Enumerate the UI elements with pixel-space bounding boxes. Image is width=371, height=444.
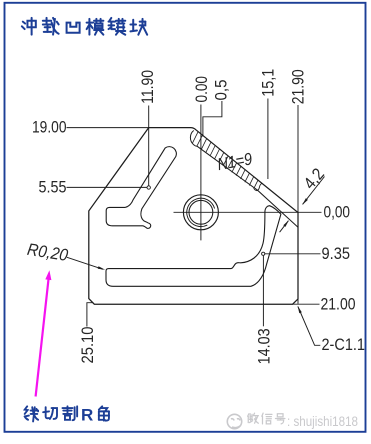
dim ext 25.10 — [87, 303, 93, 327]
dim line 9.35 with point marker — [265, 253, 321, 255]
svg-text:14.03: 14.03 — [255, 328, 274, 364]
svg-text:21.00: 21.00 — [321, 295, 356, 314]
svg-text:5.55: 5.55 — [39, 177, 67, 196]
dim text 0.00 top — [192, 76, 211, 103]
magenta callout arrow — [36, 279, 49, 396]
dim ext 21.90 / right edge extension — [297, 105, 299, 212]
dim text 0,5 — [212, 80, 231, 101]
leader R0,20 — [67, 257, 103, 269]
svg-text:: shujishi1818: : shujishi1818 — [287, 414, 358, 429]
dim text 4,2 — [300, 165, 328, 193]
dim leader 0,5 — [203, 101, 222, 137]
dim ext 15,1 — [267, 99, 269, 180]
arrowhead 4,2 upper — [302, 198, 308, 205]
dim text 15,1 — [258, 69, 277, 97]
svg-text:2-C1.1: 2-C1.1 — [322, 335, 366, 354]
dim line 19.00 — [67, 127, 149, 129]
svg-text:0,00: 0,00 — [324, 203, 351, 222]
svg-text:R: R — [81, 406, 93, 425]
svg-text:0.00: 0.00 — [192, 76, 211, 103]
arrowhead 4,2 lower — [283, 220, 289, 227]
watermark text 微信号 — [248, 413, 259, 423]
arrowhead R0,20 — [98, 266, 106, 270]
thread arc — [187, 198, 215, 226]
leader 4,2 upper — [303, 177, 325, 205]
svg-text:11.90: 11.90 — [138, 70, 157, 104]
dim line 21.00 — [293, 303, 320, 305]
dim text 25.10 — [78, 327, 97, 364]
dim text 11.90 — [138, 70, 157, 104]
dim text 14.03 — [255, 328, 274, 364]
vertical centerline / 0.00 extension — [200, 105, 202, 241]
svg-text:0,5: 0,5 — [212, 80, 231, 101]
arrowhead 2-C1.1 — [298, 306, 302, 313]
dim ext 14.03 — [262, 256, 264, 327]
svg-text:21.90: 21.90 — [289, 69, 308, 104]
die insert outer outline — [89, 128, 298, 305]
watermark icon — [227, 414, 241, 428]
dim line 5.55 with point marker — [67, 186, 148, 188]
dim text R0,20 — [26, 240, 70, 265]
hatch break squiggle — [254, 183, 262, 190]
wire-cut die opening contour — [106, 206, 281, 287]
hole inner circle — [189, 200, 213, 224]
svg-text:9.35: 9.35 — [322, 244, 351, 263]
hatch band inner line — [190, 131, 298, 228]
screw hole outer circle — [183, 195, 218, 230]
svg-text:15,1: 15,1 — [258, 69, 277, 97]
surface label N1=9 — [216, 149, 254, 174]
dim ext 11.90 — [148, 106, 150, 186]
svg-text:25.10: 25.10 — [78, 327, 97, 364]
horizontal centerline / 0,00 dimension line — [174, 211, 322, 213]
leader 2-C1.1 — [298, 307, 320, 346]
dim text 21.90 — [289, 69, 308, 104]
title text 冲裁凹模镶块 — [22, 18, 36, 35]
label text 线切割R角 — [25, 406, 38, 421]
leader 4,2 lower — [280, 221, 289, 233]
svg-text:19.00: 19.00 — [32, 118, 67, 137]
boomerang relief slot — [106, 147, 176, 229]
